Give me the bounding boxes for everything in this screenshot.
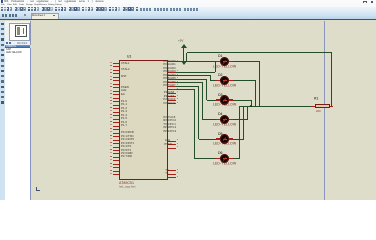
wire pin fan: [176, 88, 195, 91]
wire right vertical to R1: [330, 53, 333, 106]
device list: [5, 48, 30, 200]
toolbar area: [0, 7, 376, 20]
sheet corner mark: [35, 187, 38, 191]
title bar: [0, 0, 376, 3]
menu bar: [0, 3, 376, 6]
wire LED D4 cathode: [229, 118, 248, 121]
LED D2: [218, 73, 222, 77]
left vertical toolbar: [0, 21, 5, 201]
wire stair v2: [209, 76, 212, 81]
IC value label: [119, 181, 134, 185]
wire LED D1 cathode: [229, 60, 260, 63]
IC right pin stubs: [168, 60, 176, 63]
LED D5: [218, 132, 222, 136]
selected device bar: [5, 45, 30, 48]
LED D1: [218, 54, 222, 58]
wire cathode v D6: [238, 106, 241, 159]
resistor R1: [311, 105, 316, 108]
toolbar row 2: [2, 14, 4, 17]
wire stair v1: [214, 62, 217, 73]
wire LED D2 cathode: [229, 79, 256, 82]
window buttons: [363, 1, 367, 5]
wire cathode v D2: [254, 81, 257, 107]
junction node: [250, 105, 252, 107]
IC U1 AT89C51 body: [119, 60, 168, 180]
wire to LED D6: [195, 157, 217, 160]
sheet dropdown: [31, 13, 59, 19]
object selector header: [5, 42, 31, 45]
toolbar row 1: [1, 7, 3, 10]
wire to LED D3: [207, 99, 217, 102]
wire pin fan: [176, 85, 199, 88]
wire LED D5 cathode: [229, 138, 244, 141]
wire stair v3: [205, 79, 208, 100]
wire to LED D5: [199, 138, 217, 141]
wire cathode v D5: [242, 106, 245, 140]
wire stair v4: [201, 83, 204, 120]
wire cathode v D3: [250, 100, 253, 106]
wire pin fan: [176, 81, 203, 84]
wire cathode v D4: [246, 106, 249, 120]
LED D3: [218, 93, 222, 97]
LED D4: [218, 112, 222, 116]
wire stair v6: [193, 90, 196, 159]
wire pin fan: [176, 78, 207, 81]
wire cathode bus: [240, 105, 311, 108]
IC left pin stubs: [113, 62, 120, 65]
wire to LED D1: [176, 60, 221, 63]
schematic sheet border (right edge): [324, 21, 325, 201]
wire LED D3 cathode: [229, 99, 252, 102]
wire VCC top rail: [187, 51, 332, 54]
wire to LED D4: [203, 118, 217, 121]
wire LED D6 cathode: [229, 157, 240, 160]
LED D6: [218, 151, 222, 155]
wire stair v5: [197, 86, 200, 139]
power +5V terminal: [178, 39, 183, 43]
wire cathode v D1: [258, 62, 261, 107]
left panel: overview window: [5, 21, 31, 42]
navy separator: [0, 19, 376, 20]
wire to LED D2: [211, 79, 217, 82]
wire pin fan: [176, 71, 216, 74]
wire pin fan: [176, 74, 211, 77]
wire VCC drop: [185, 53, 188, 62]
